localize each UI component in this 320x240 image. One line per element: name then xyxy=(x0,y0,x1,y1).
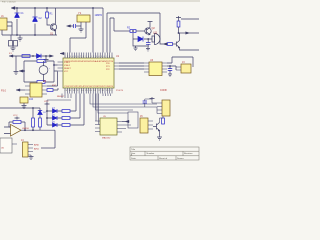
node junction xyxy=(46,110,48,112)
resistor R10 xyxy=(39,118,42,127)
capacitor C3 xyxy=(74,24,76,28)
svg-text:XTAL1: XTAL1 xyxy=(64,61,71,64)
connector J2 xyxy=(9,35,18,46)
svg-text:VCC: VCC xyxy=(44,101,49,103)
ground xyxy=(11,46,16,51)
port arrow VIN xyxy=(11,7,15,10)
ground xyxy=(22,103,27,109)
svg-text:LS1: LS1 xyxy=(153,32,158,35)
wire xyxy=(147,39,149,47)
wire xyxy=(122,125,131,129)
node junction xyxy=(45,55,47,57)
wire xyxy=(179,32,186,34)
title block texts xyxy=(131,148,193,160)
rs232 U5 right pins xyxy=(117,122,122,133)
wire xyxy=(23,65,58,71)
connector J5 pins xyxy=(157,103,162,114)
wire xyxy=(16,8,18,35)
wire xyxy=(160,13,163,44)
mcu U1 bottom pins xyxy=(65,88,112,94)
wire xyxy=(13,55,52,57)
resistor R11 xyxy=(162,118,165,124)
connector J3 pins xyxy=(176,67,181,70)
wire xyxy=(107,13,160,53)
node junction xyxy=(53,64,55,66)
resistor R12 xyxy=(37,81,45,84)
wire xyxy=(47,72,58,87)
wire xyxy=(173,43,177,45)
svg-text:Drawn:: Drawn: xyxy=(177,157,184,160)
node junction xyxy=(46,7,48,9)
resistor R9 xyxy=(32,118,35,127)
mcu U1 top pins xyxy=(65,53,112,59)
wire xyxy=(34,8,36,35)
node junction xyxy=(32,107,34,109)
rs232 U5 left pins xyxy=(95,121,100,132)
wire xyxy=(110,18,114,53)
wire xyxy=(180,48,200,51)
connector J4 pins xyxy=(12,144,33,155)
opto U2 pins xyxy=(25,86,47,94)
svg-text:P3.4/T0: P3.4/T0 xyxy=(116,90,124,92)
node junction xyxy=(23,70,25,72)
resistor R4 xyxy=(177,21,180,27)
connector J6 pins xyxy=(148,121,153,129)
node junction xyxy=(24,129,26,131)
resistor R1 xyxy=(46,12,49,18)
wire xyxy=(181,18,199,20)
wire xyxy=(46,8,48,12)
power VCC xyxy=(148,22,153,28)
wire xyxy=(92,8,94,53)
connector J4 xyxy=(21,139,28,157)
svg-text:RESET: RESET xyxy=(57,96,65,98)
connector J6 xyxy=(140,115,148,133)
driver U3 right pins xyxy=(162,63,167,72)
wire xyxy=(156,107,158,114)
capacitor C8 xyxy=(143,101,147,103)
speaker LS1 xyxy=(152,34,160,45)
svg-text:P10P11P12P13P14P15P16P17RSTRXD: P10P11P12P13P14P15P16P17RSTRXDTXDINT0 xyxy=(65,86,114,88)
port arrow RST xyxy=(60,52,64,54)
svg-text:MAX232: MAX232 xyxy=(102,137,111,140)
ground xyxy=(18,35,23,41)
wire xyxy=(175,66,177,70)
diode D1 xyxy=(138,37,143,42)
wire xyxy=(4,127,55,148)
node junction xyxy=(46,117,48,119)
wire ground rail xyxy=(2,30,57,35)
wire xyxy=(190,32,200,34)
port arrow xyxy=(50,55,54,57)
title block frame xyxy=(130,147,199,160)
ground xyxy=(44,56,49,63)
capacitor C5 xyxy=(168,69,172,71)
transistor Q3 xyxy=(177,41,180,48)
svg-text:AIN1: AIN1 xyxy=(34,148,40,151)
rs232 U5 xyxy=(100,116,117,140)
svg-text:Date:: Date: xyxy=(131,157,137,160)
title block row line xyxy=(130,151,199,156)
wire to rs232 xyxy=(96,94,111,125)
wire xyxy=(70,26,86,53)
wire xyxy=(169,66,171,73)
mcu U1 body xyxy=(63,58,114,88)
resistor R6 xyxy=(37,60,45,63)
wire xyxy=(33,108,40,130)
wire xyxy=(160,116,164,123)
port arrow xyxy=(16,89,20,91)
power VCC xyxy=(15,117,20,120)
ground xyxy=(14,70,19,75)
port arrow XTAL xyxy=(67,25,71,27)
node junction xyxy=(147,38,149,40)
node junction xyxy=(92,7,94,9)
svg-text:CON8: CON8 xyxy=(160,89,167,92)
svg-text:File: C:\ds\sch: File: C:\ds\sch xyxy=(2,2,17,4)
resistor R8 feedback xyxy=(13,121,21,124)
svg-text:104: 104 xyxy=(29,98,34,101)
transistor Q4 xyxy=(153,123,160,131)
wire flyback loop xyxy=(133,33,152,46)
node junction xyxy=(16,7,18,9)
svg-text:VCC: VCC xyxy=(64,71,69,73)
driver U3 xyxy=(149,59,162,76)
connector J5 xyxy=(160,89,170,116)
wire bus to right xyxy=(90,94,157,114)
node junction xyxy=(169,65,171,67)
ground xyxy=(29,155,34,160)
wire xyxy=(113,18,115,31)
wire xyxy=(55,8,57,35)
port arrow xyxy=(9,55,13,57)
driver U3 left pins xyxy=(144,63,149,72)
node junction xyxy=(34,7,36,9)
ground xyxy=(157,131,162,141)
svg-text:P3.0: P3.0 xyxy=(1,90,7,93)
capacitor C1 xyxy=(15,13,20,18)
wire xyxy=(102,8,104,53)
ground xyxy=(146,47,150,51)
capacitor C4 xyxy=(146,43,151,45)
node junction xyxy=(34,34,36,36)
wire xyxy=(114,30,130,32)
svg-text:40 39 38 37 36 35 34 33 32 31: 40 39 38 37 36 35 34 33 32 31 30 29 xyxy=(65,90,113,92)
capacitor C9 electrolytic xyxy=(39,61,48,82)
ground xyxy=(79,26,84,32)
svg-text:Sheet of: Sheet of xyxy=(159,157,168,160)
power VCC xyxy=(150,97,155,100)
wire xyxy=(15,56,17,70)
wire xyxy=(41,147,55,149)
diode row 2 xyxy=(47,94,80,121)
wire xyxy=(136,30,145,32)
node junction xyxy=(32,129,34,131)
wire analog rail xyxy=(0,107,40,109)
wire xyxy=(7,22,12,35)
svg-text:12MHz: 12MHz xyxy=(95,14,103,17)
capacitor C2 xyxy=(33,17,38,22)
wire xyxy=(179,19,180,41)
transistor Q1 xyxy=(50,24,56,31)
resistor R2 xyxy=(130,30,136,33)
wire xyxy=(122,121,125,123)
wire xyxy=(71,25,74,27)
op-amp U4 xyxy=(11,125,30,137)
sensor module xyxy=(0,138,12,153)
sheet top edge xyxy=(0,0,200,2)
diode row 3 xyxy=(47,94,84,128)
wire xyxy=(167,57,193,67)
wire xyxy=(46,106,48,126)
crystal Y1 xyxy=(77,11,103,22)
port arrow xyxy=(19,70,23,72)
transistor Q2 xyxy=(145,28,151,35)
svg-text:Number: Number xyxy=(147,152,155,155)
svg-text:RESET: RESET xyxy=(64,68,71,70)
node junction xyxy=(16,34,18,36)
diode D3 xyxy=(38,111,42,115)
power VCC xyxy=(45,103,50,106)
svg-text:XTAL2: XTAL2 xyxy=(64,64,71,67)
node junction xyxy=(178,32,180,34)
wire xyxy=(47,18,50,25)
connector J1 power input xyxy=(0,14,7,30)
power VCC xyxy=(176,16,181,19)
mcu U1 right pins xyxy=(114,63,119,69)
port box xyxy=(128,112,138,128)
wire xyxy=(15,7,103,9)
ground xyxy=(168,73,172,77)
wire xyxy=(9,122,25,130)
wire reset loop xyxy=(24,61,54,82)
node junction xyxy=(32,55,34,57)
svg-text:Revision: Revision xyxy=(184,153,193,155)
ground xyxy=(134,46,138,51)
svg-text:VCC: VCC xyxy=(13,115,18,117)
wire xyxy=(53,88,58,90)
opto U2 xyxy=(30,80,47,97)
wire xyxy=(76,22,86,26)
capacitor C6 xyxy=(20,97,34,103)
port arrow xyxy=(163,43,167,45)
led D2 xyxy=(37,54,42,58)
wire xyxy=(119,63,144,69)
port arrow xyxy=(186,32,190,34)
title block column line xyxy=(145,151,183,160)
wire column from mcu pins xyxy=(47,94,71,105)
node junction xyxy=(132,30,134,32)
svg-text:1 2 3 4 5 6 7 8 9 0 1 2 3 4 5: 1 2 3 4 5 6 7 8 9 0 1 2 3 4 5 6 7 8 9 xyxy=(65,56,113,58)
resistor R3 xyxy=(168,43,173,46)
svg-text:Y1: Y1 xyxy=(78,11,82,15)
diode row 1 xyxy=(47,94,76,114)
wire xyxy=(145,99,157,107)
resistor R7 xyxy=(47,89,53,92)
mcu U1 left pins xyxy=(58,62,64,71)
port arrow xyxy=(125,120,129,122)
svg-text:AIN0: AIN0 xyxy=(34,144,40,147)
resistor R5 xyxy=(22,55,30,58)
connector J3 xyxy=(181,61,191,73)
wire xyxy=(20,89,25,91)
